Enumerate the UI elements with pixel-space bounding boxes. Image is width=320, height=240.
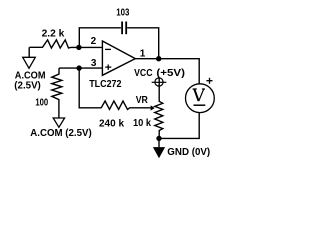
svg-text:2.2 k: 2.2 k [42, 29, 65, 40]
svg-text:(+5V): (+5V) [156, 68, 185, 79]
svg-text:103: 103 [116, 8, 129, 19]
svg-text:2: 2 [91, 36, 97, 47]
svg-text:(2.5V): (2.5V) [14, 81, 41, 92]
svg-text:A.COM (2.5V): A.COM (2.5V) [30, 128, 91, 139]
svg-text:240 k: 240 k [99, 118, 124, 129]
svg-text:VR: VR [136, 95, 149, 106]
svg-text:TLC272: TLC272 [89, 79, 122, 90]
svg-text:GND (0V): GND (0V) [167, 147, 210, 158]
svg-text:3: 3 [91, 58, 97, 69]
svg-text:100: 100 [35, 98, 48, 109]
svg-text:1: 1 [140, 49, 146, 60]
svg-text:10 k: 10 k [133, 118, 152, 129]
svg-text:VCC: VCC [134, 68, 152, 79]
